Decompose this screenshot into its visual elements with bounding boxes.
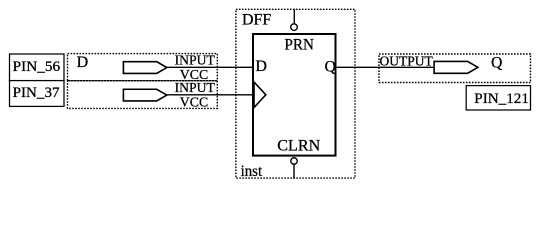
- svg-text:VCC: VCC: [180, 95, 208, 110]
- svg-text:INPUT: INPUT: [175, 54, 216, 69]
- clock triangle: [254, 82, 266, 108]
- svg-text:OUTPUT: OUTPUT: [380, 55, 434, 70]
- input atom box 2 (dotted): [68, 81, 218, 109]
- svg-text:DFF: DFF: [242, 12, 271, 29]
- wire net clock: buffer2 output to DFF clk pin: [167, 94, 254, 96]
- DFF instance outline (dotted): [236, 9, 355, 178]
- DFF body: [253, 34, 336, 156]
- CLRN bubble: [291, 158, 298, 165]
- wire CLRN stub: [293, 164, 295, 178]
- svg-text:INPUT: INPUT: [175, 81, 216, 96]
- svg-text:PIN_37: PIN_37: [13, 85, 60, 101]
- svg-text:Q: Q: [325, 59, 336, 76]
- svg-text:PIN_121: PIN_121: [474, 91, 529, 107]
- input buffer 1: [123, 62, 166, 74]
- input atom box 1 (dotted): [68, 54, 218, 81]
- pin box PIN_56: [10, 54, 65, 81]
- output buffer: [434, 61, 478, 73]
- svg-text:D: D: [255, 58, 267, 75]
- svg-text:PIN_56: PIN_56: [13, 59, 60, 75]
- input buffer 2: [123, 89, 166, 101]
- pin box PIN_37: [10, 81, 65, 107]
- svg-text:Q: Q: [491, 55, 502, 72]
- wire PRN stub: [293, 9, 295, 23]
- svg-text:D: D: [77, 54, 89, 71]
- output atom box (dotted): [379, 54, 531, 83]
- PRN bubble: [291, 24, 298, 31]
- svg-text:inst: inst: [241, 163, 263, 180]
- wire net Q: DFF Q pin to output buffer: [336, 66, 435, 68]
- svg-text:CLRN: CLRN: [277, 137, 320, 154]
- svg-text:PRN: PRN: [284, 37, 314, 54]
- pin box PIN_121: [466, 86, 530, 110]
- wire net D: buffer1 output to DFF D pin: [167, 66, 253, 68]
